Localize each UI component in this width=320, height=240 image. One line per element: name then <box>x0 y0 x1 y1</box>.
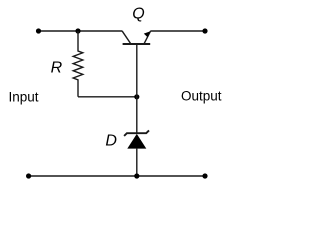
transistor Q emitter lead with arrow <box>144 31 151 44</box>
svg-text:Input: Input <box>9 89 39 104</box>
zener diode D cathode bar <box>124 130 149 136</box>
svg-text:Q: Q <box>132 6 144 23</box>
resistor R <box>73 31 83 97</box>
zener diode D triangle (anode) <box>127 134 146 149</box>
node: junction top rail / resistor <box>75 28 80 33</box>
wire: bottom rail <box>29 175 205 177</box>
node: output terminal dot (bottom right) <box>202 173 207 178</box>
svg-text:Output: Output <box>181 89 222 104</box>
wire: zener to bottom rail <box>136 149 138 176</box>
transistor Q base bar <box>123 43 151 45</box>
wire: base node down to zener <box>136 97 138 133</box>
node: junction bottom rail / zener <box>134 173 139 178</box>
node: output terminal dot (top right) <box>202 28 207 33</box>
svg-text:R: R <box>51 60 63 77</box>
wire: top rail to collector <box>78 30 122 32</box>
svg-text:D: D <box>105 132 117 149</box>
wire: top rail input segment <box>39 30 79 32</box>
wire: emitter to output <box>151 30 205 32</box>
transistor Q collector lead <box>122 31 131 44</box>
wire: resistor bottom to base node <box>78 96 137 98</box>
node: input terminal dot (bottom left) <box>26 173 31 178</box>
transistor Q base lead wire <box>136 44 138 97</box>
node: junction base/zener/resistor <box>134 94 139 99</box>
node: input terminal dot (top left) <box>36 28 41 33</box>
